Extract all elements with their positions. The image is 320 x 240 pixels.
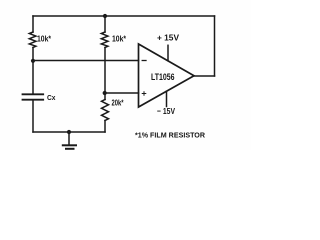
node ground junction dot [67, 130, 71, 134]
wire noninverting input (node B to op-amp) [105, 92, 139, 94]
resistor R3 20k [102, 100, 109, 121]
wire R1 bottom to node A [32, 48, 34, 61]
wire inverting input (node A to op-amp) [33, 60, 139, 62]
op-amp U1 triangle [139, 44, 195, 107]
ground [63, 132, 76, 149]
wire capacitor bottom lead [32, 100, 34, 132]
node B junction dot [103, 91, 107, 95]
wire -15V supply lead [166, 91, 168, 106]
node top rail junction dot [103, 14, 107, 18]
svg-text:+ 15V: + 15V [157, 32, 179, 42]
wire R3 bottom lead [104, 121, 106, 133]
wire node A to capacitor [32, 61, 34, 94]
wire op-amp output [194, 75, 215, 77]
svg-text:LT1056: LT1056 [151, 72, 175, 82]
op-amp plus pin symbol [142, 92, 146, 96]
node A junction dot [31, 59, 35, 63]
wire left branch upper lead [32, 16, 34, 32]
resistor R1 10k left [29, 32, 36, 48]
wire top rail [33, 15, 215, 17]
svg-text:10k*: 10k* [112, 35, 127, 44]
svg-text:Cx: Cx [47, 93, 56, 102]
wire +15V supply lead [167, 45, 169, 60]
wire right feedback [214, 16, 216, 76]
svg-text:*1% FILM RESISTOR: *1% FILM RESISTOR [135, 131, 205, 140]
wire second branch upper lead [104, 16, 106, 32]
svg-text:− 15V: − 15V [157, 106, 175, 116]
svg-text:20k*: 20k* [112, 99, 125, 108]
wire R2 bottom crossing to node B [104, 48, 106, 100]
wire bottom rail [33, 131, 105, 133]
capacitor Cx [23, 94, 44, 99]
op-amp minus pin symbol [142, 60, 146, 62]
svg-text:10k*: 10k* [37, 35, 52, 44]
resistor R2 10k right [101, 32, 108, 48]
